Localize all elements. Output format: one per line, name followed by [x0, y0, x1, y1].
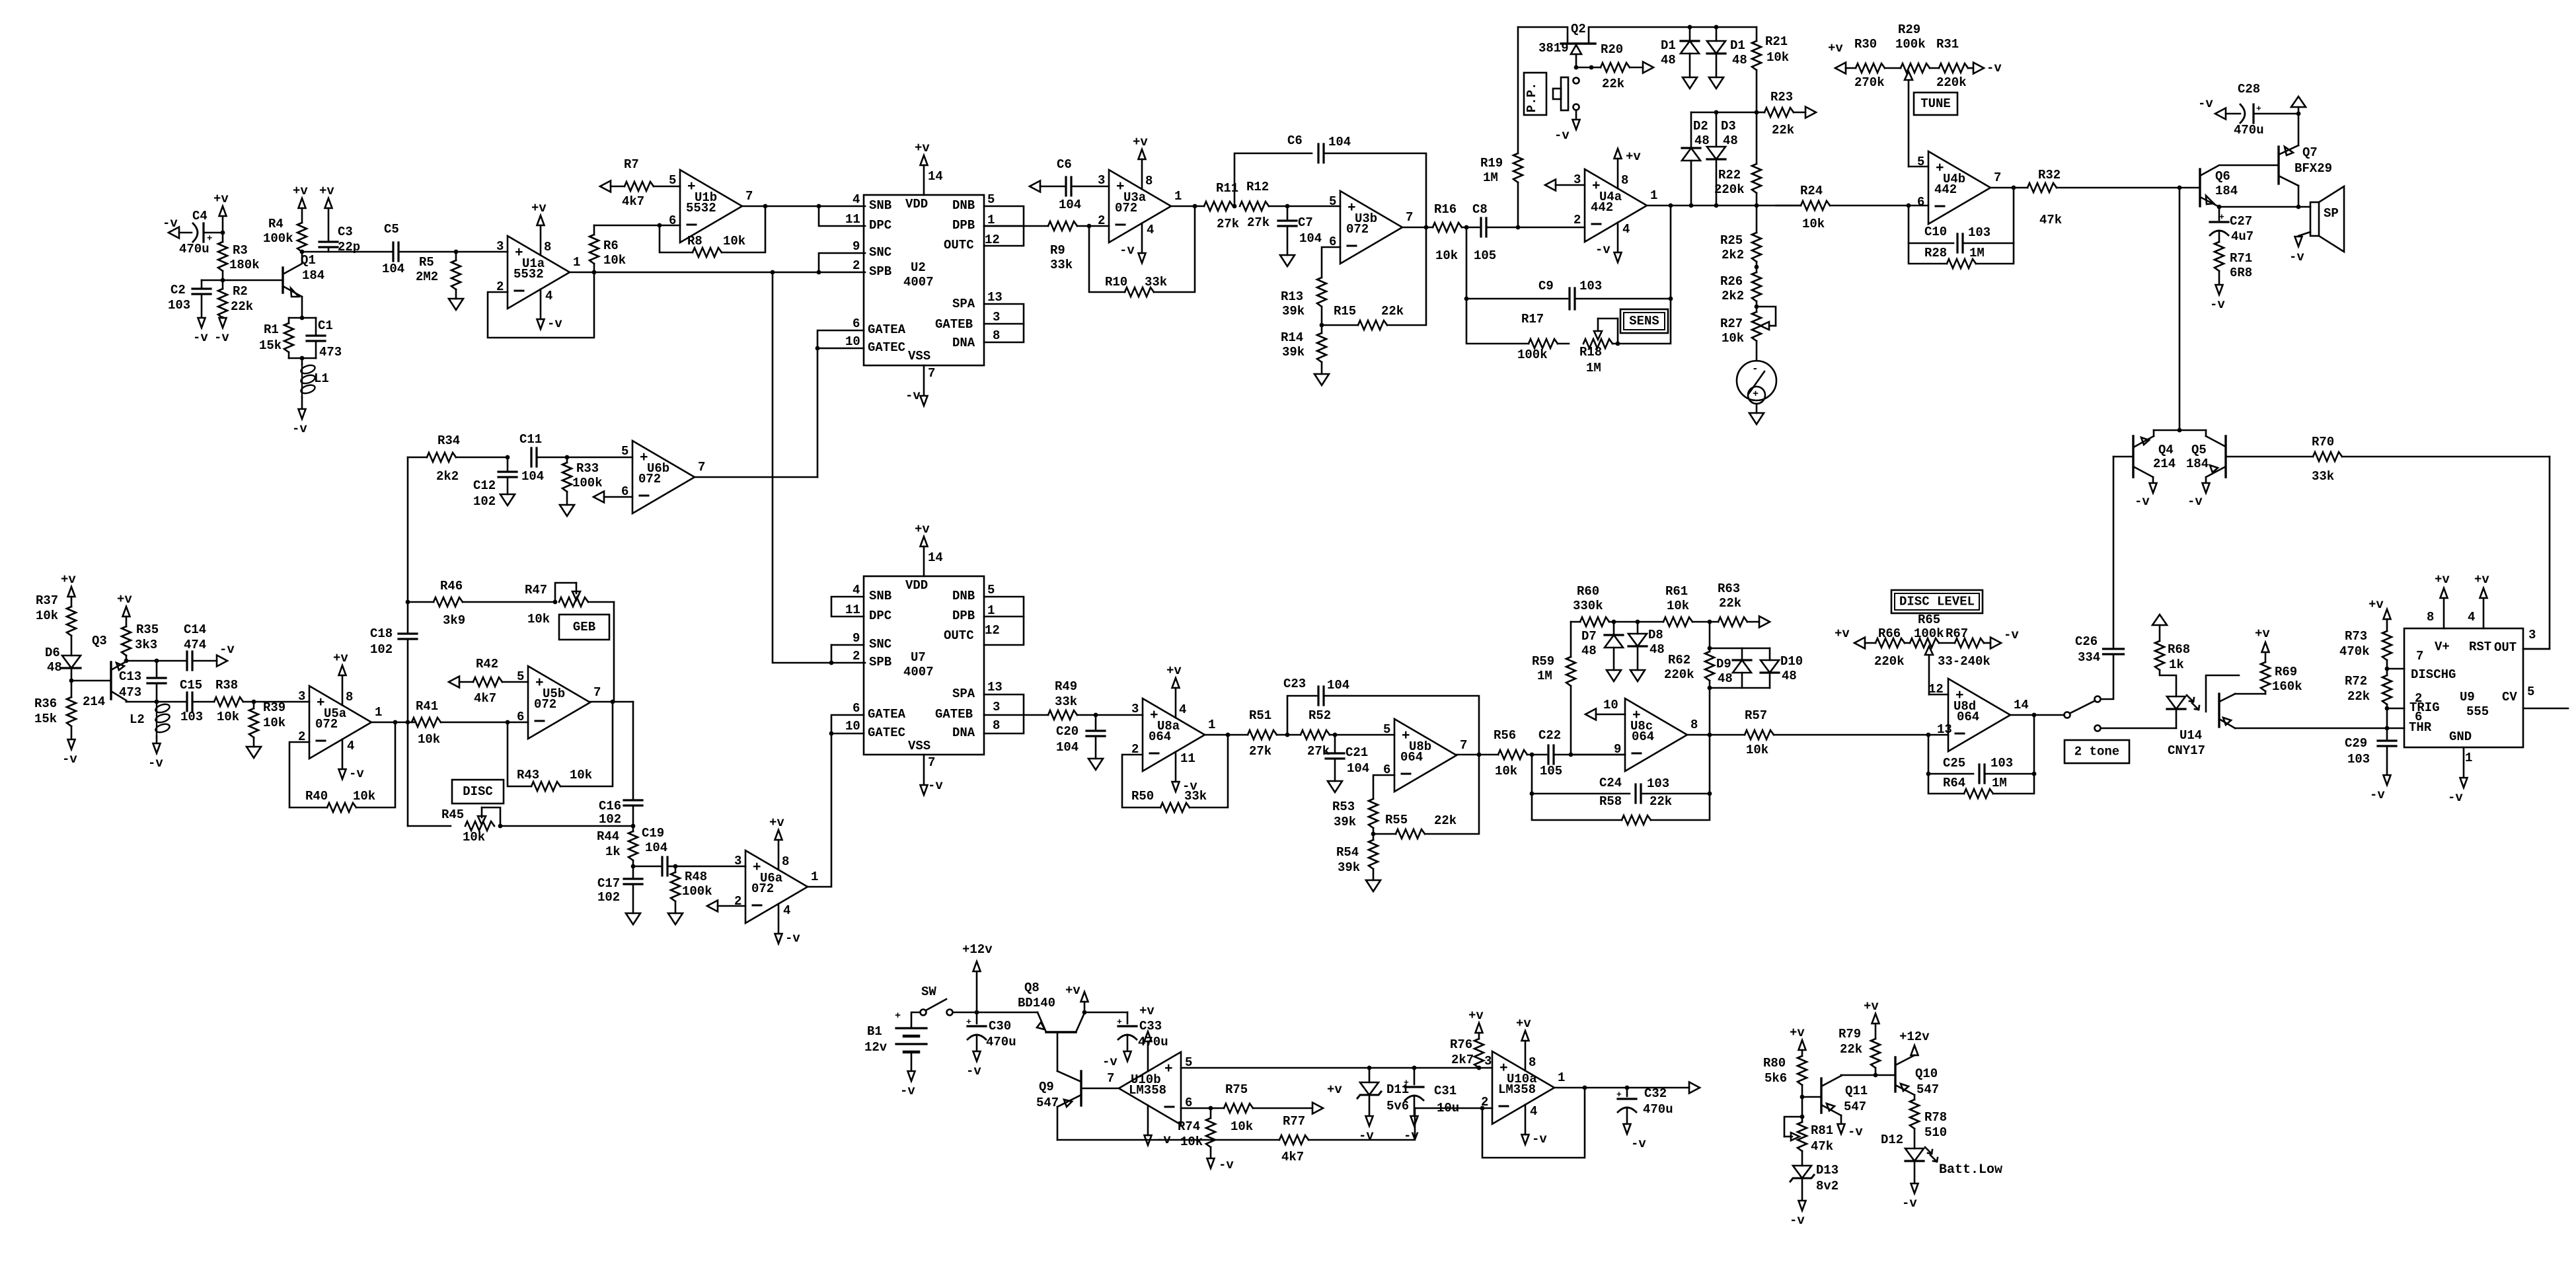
svg-text:184: 184 [2186, 457, 2209, 471]
node U7 GATEC [829, 731, 834, 736]
resistor R20 [1576, 42, 1643, 91]
svg-text:330k: 330k [1573, 599, 1603, 613]
svg-text:2k2: 2k2 [1722, 248, 1744, 262]
U2 pin numbers left [845, 192, 860, 349]
resistor R16 [1433, 202, 1462, 263]
svg-text:22k: 22k [2347, 689, 2370, 704]
resistor R74 [1178, 1108, 1215, 1158]
svg-text:5: 5 [517, 669, 524, 684]
capacitor C6 [1040, 157, 1109, 212]
svg-text:-v: -v [785, 931, 800, 946]
svg-text:+v: +v [61, 572, 76, 587]
node R56/C22/C24 [1527, 753, 1546, 757]
resistor R4 [263, 184, 308, 252]
svg-text:470u: 470u [2234, 123, 2264, 137]
svg-text:D2: D2 [1693, 119, 1708, 133]
resistor R67 [1938, 626, 1990, 669]
U9 DISCHG pin 7 [2388, 649, 2456, 682]
switch pole (2 tone) [2065, 701, 2095, 718]
potentiometer R29 [1885, 22, 1930, 167]
svg-text:7: 7 [1994, 170, 2001, 185]
diode D6 [45, 646, 81, 681]
svg-text:-v: -v [148, 756, 163, 770]
svg-text:C2: C2 [170, 283, 186, 297]
svg-text:C24: C24 [1599, 776, 1622, 790]
transistor Q7 [2279, 114, 2332, 207]
svg-text:104: 104 [1056, 740, 1079, 755]
svg-text:5: 5 [621, 444, 628, 459]
svg-text:4k7: 4k7 [1281, 1150, 1304, 1164]
capacitor C13 [119, 661, 166, 702]
ground (R5) [449, 299, 463, 310]
svg-text:6: 6 [852, 701, 860, 716]
svg-text:U2: U2 [911, 260, 926, 275]
wire R70 to 555 OUT [2523, 457, 2550, 649]
svg-text:DNA: DNA [952, 336, 975, 350]
svg-text:5532: 5532 [513, 267, 544, 281]
svg-text:-v: -v [900, 1084, 915, 1098]
svg-text:Q5: Q5 [2191, 443, 2207, 457]
node Q4/Q5 emitters [2154, 428, 2206, 433]
diode D8 [1628, 622, 1665, 670]
svg-text:214: 214 [2153, 457, 2176, 471]
svg-text:072: 072 [1115, 201, 1137, 215]
svg-text:C20: C20 [1056, 724, 1079, 739]
svg-text:C19: C19 [642, 826, 664, 841]
resistor R71 [2215, 242, 2252, 284]
node U8b out [1477, 753, 1482, 757]
label Batt.Low [1939, 1162, 2002, 1178]
svg-text:D6: D6 [45, 646, 60, 660]
wire U3b pin6 loop [1322, 247, 1340, 278]
svg-text:DISC: DISC [463, 784, 493, 799]
svg-text:-v: -v [1631, 1137, 1646, 1151]
svg-text:14: 14 [2014, 698, 2029, 712]
wire U10b pin5 run [1181, 1067, 1492, 1069]
svg-text:2k2: 2k2 [1722, 289, 1744, 303]
svg-text:8: 8 [1621, 173, 1628, 188]
svg-text:104: 104 [1328, 135, 1351, 149]
svg-text:1M: 1M [1992, 776, 2007, 790]
resistor R41 [412, 699, 528, 747]
node R9/R10 [1087, 224, 1092, 229]
capacitor C17 [597, 866, 642, 913]
svg-text:+v: +v [1864, 999, 1879, 1014]
svg-text:1: 1 [811, 870, 818, 884]
resistor R32 [2027, 168, 2200, 227]
svg-text:3k3: 3k3 [135, 638, 157, 652]
wire U8b pin6 loop [1373, 775, 1394, 799]
svg-text:+: + [2256, 104, 2261, 114]
op-amp U10b (mirrored) [1107, 1004, 1192, 1147]
svg-text:R44: R44 [597, 829, 619, 844]
resistor R58 (feedback) [1532, 735, 1710, 825]
svg-text:+v: +v [2368, 597, 2384, 612]
resistor R60 [1571, 584, 1663, 626]
svg-text:+v: +v [1468, 1008, 1484, 1023]
node R45 right [498, 824, 503, 829]
wire U4b out run [1990, 187, 2027, 189]
svg-text:C25: C25 [1943, 756, 1965, 770]
switch contact lower [2095, 726, 2101, 731]
wire U7 GATEC stub [831, 733, 864, 735]
ground (C7) [1280, 255, 1295, 266]
transistor Q9 [1036, 1071, 1119, 1140]
svg-text:U9: U9 [2460, 690, 2475, 704]
svg-text:C29: C29 [2345, 736, 2367, 751]
svg-text:+v: +v [117, 592, 132, 607]
svg-text:OUTC: OUTC [944, 628, 974, 643]
svg-text:-v: -v [1554, 128, 1570, 143]
power -v (C32) [1624, 1124, 1647, 1151]
svg-text:+v: +v [333, 651, 348, 665]
svg-text:180k: 180k [229, 258, 260, 272]
svg-text:4007: 4007 [903, 275, 934, 289]
resistor R28 [1909, 243, 2014, 268]
svg-text:-v: -v [2289, 250, 2304, 264]
svg-text:Q10: Q10 [1915, 1067, 1938, 1081]
svg-text:C33: C33 [1139, 1019, 1162, 1033]
svg-text:C21: C21 [1345, 745, 1368, 760]
node R21/R22/R23 [1755, 110, 1759, 115]
wire C18 vertical top [407, 457, 409, 634]
svg-text:-v: -v [1532, 1132, 1547, 1146]
power -v (R67) [1990, 628, 2019, 648]
svg-text:48: 48 [47, 660, 62, 675]
svg-text:DPB: DPB [952, 609, 975, 623]
svg-text:BFX29: BFX29 [2294, 161, 2332, 176]
ground (R48) [668, 913, 683, 924]
resistor R5 [416, 252, 461, 299]
svg-text:-v: -v [62, 752, 77, 767]
svg-text:8: 8 [544, 240, 551, 254]
svg-text:7: 7 [745, 189, 753, 204]
wire SPB run [773, 272, 865, 274]
svg-text:+v: +v [1790, 1026, 1805, 1040]
off-page connector -v (C4 input) [163, 216, 192, 238]
svg-text:TRIG: TRIG [2409, 700, 2440, 715]
svg-text:072: 072 [638, 472, 661, 486]
svg-text:+v: +v [2435, 572, 2450, 587]
resistor R36 [34, 681, 76, 739]
svg-text:1k: 1k [605, 844, 621, 859]
svg-text:10k: 10k [1180, 1135, 1203, 1149]
wire base run [202, 280, 283, 281]
svg-text:4: 4 [783, 903, 790, 918]
svg-text:SPB: SPB [869, 264, 891, 279]
svg-text:C22: C22 [1538, 728, 1561, 743]
capacitor C5 [382, 222, 456, 276]
svg-text:-v: -v [547, 317, 562, 331]
svg-text:220k: 220k [1874, 654, 1905, 669]
svg-text:-v: -v [1790, 1213, 1805, 1228]
svg-text:1: 1 [1650, 188, 1657, 203]
potentiometer R27 [1720, 307, 1776, 346]
resistor R14 [1281, 330, 1326, 374]
resistor R50 [1122, 735, 1228, 812]
svg-text:3: 3 [993, 700, 1000, 714]
svg-text:R49: R49 [1055, 679, 1077, 694]
svg-text:VSS: VSS [908, 739, 930, 753]
svg-text:-v: -v [2448, 790, 2463, 805]
svg-text:R65: R65 [1918, 613, 1940, 627]
node U8c out [1708, 733, 1712, 737]
resistor R10 [1089, 206, 1195, 297]
svg-text:1M: 1M [1483, 170, 1498, 185]
node U4b out [2012, 186, 2016, 190]
svg-text:R31: R31 [1936, 37, 1959, 52]
U7 bracket DNB/DPB/OUTC [984, 597, 1024, 645]
wire C18 vertical bottom [407, 722, 409, 826]
svg-text:470k: 470k [2339, 644, 2370, 659]
svg-text:R57: R57 [1745, 708, 1767, 723]
svg-text:6: 6 [852, 317, 860, 331]
svg-text:-v: -v [2004, 628, 2019, 642]
wire GATEA/GATEC feed (from U6b) [815, 330, 864, 477]
svg-text:10k: 10k [1746, 743, 1768, 757]
svg-text:12: 12 [985, 623, 1000, 638]
svg-text:4u7: 4u7 [2231, 229, 2254, 244]
off-page connector (U6a pin2) [707, 901, 745, 912]
svg-text:7: 7 [1107, 1071, 1114, 1086]
svg-text:TUNE: TUNE [1920, 96, 1951, 111]
svg-text:5v6: 5v6 [1386, 1099, 1409, 1113]
svg-text:CV: CV [2502, 690, 2517, 704]
svg-text:220k: 220k [1664, 667, 1694, 682]
svg-text:27k: 27k [1249, 744, 1271, 759]
ground (C20) [1088, 759, 1103, 770]
svg-text:3: 3 [298, 689, 305, 704]
svg-text:+v: +v [1065, 983, 1080, 998]
diode D1 (right) [1707, 27, 1747, 77]
svg-text:R58: R58 [1599, 794, 1622, 809]
svg-text:4: 4 [852, 583, 860, 597]
potentiometer R65 [1905, 613, 1944, 694]
svg-text:+v: +v [1828, 41, 1843, 56]
svg-text:104: 104 [382, 262, 404, 276]
svg-text:547: 547 [1844, 1100, 1866, 1114]
svg-text:R52: R52 [1308, 708, 1331, 723]
svg-text:R19: R19 [1480, 156, 1503, 170]
svg-text:470u: 470u [179, 242, 209, 256]
node D1 right [1690, 25, 1757, 30]
svg-text:+: + [966, 1017, 971, 1027]
svg-text:+v: +v [293, 184, 308, 198]
U2 left pin labels [868, 198, 906, 355]
svg-text:6: 6 [2415, 710, 2422, 724]
svg-text:100k: 100k [572, 476, 603, 490]
svg-text:33k: 33k [1055, 694, 1077, 709]
U9 CV pin 5 [2502, 685, 2568, 708]
svg-text:RST: RST [2469, 640, 2491, 654]
svg-text:470u: 470u [986, 1035, 1016, 1049]
power -v (R2) [214, 317, 229, 345]
wire to U1a pin3 [456, 251, 508, 253]
svg-text:OUT: OUT [2494, 640, 2517, 655]
resistor R70 [2312, 435, 2550, 484]
svg-text:4k7: 4k7 [474, 691, 496, 706]
resistor R30 [1846, 37, 1885, 90]
U2 name [903, 260, 934, 289]
resistor R48 [671, 866, 712, 913]
svg-text:+v: +v [1133, 135, 1148, 149]
svg-text:+v: +v [1835, 626, 1850, 641]
wire U8c out run [1687, 734, 1745, 736]
svg-text:C32: C32 [1644, 1086, 1667, 1101]
svg-text:+v: +v [915, 522, 930, 537]
svg-text:R79: R79 [1838, 1027, 1861, 1041]
svg-text:+v: +v [213, 192, 229, 206]
node R1/C1 bottom [289, 356, 316, 361]
resistor R57 [1745, 708, 1948, 757]
ground (D8) [1630, 670, 1645, 681]
svg-text:104: 104 [1299, 231, 1322, 246]
svg-text:100k: 100k [1517, 348, 1548, 362]
svg-text:R42: R42 [476, 657, 498, 671]
svg-text:102: 102 [473, 494, 496, 509]
node pin13 [1926, 733, 1931, 737]
resistor R63 [1718, 581, 1759, 626]
power -v (D11) [1359, 1116, 1374, 1143]
node R16/C9 tap [1462, 225, 1479, 230]
svg-text:7: 7 [1460, 738, 1467, 753]
resistor R66 [1865, 626, 1905, 669]
U9 GND pin 1 [2449, 730, 2472, 777]
svg-text:3: 3 [1484, 1054, 1492, 1068]
node U8a out [1226, 733, 1231, 737]
capacitor C14 [184, 622, 217, 670]
speaker SP [2296, 186, 2344, 252]
off-page connector (U8c pin10) [1585, 698, 1625, 720]
svg-text:R33: R33 [576, 461, 599, 476]
svg-text:C11: C11 [519, 432, 542, 447]
svg-text:R67: R67 [1946, 626, 1968, 641]
node C13 bottom [126, 700, 186, 704]
svg-text:+v: +v [1516, 1016, 1531, 1031]
svg-text:5k6: 5k6 [1764, 1071, 1787, 1086]
transistor Q6 [2200, 165, 2279, 207]
wire R29 wiper to pin5 [1909, 166, 1928, 168]
svg-text:R81: R81 [1811, 1123, 1833, 1138]
capacitor C27 [2210, 207, 2254, 244]
node R51/C23 [1277, 733, 1301, 737]
op-amp U6b [621, 441, 705, 513]
resistor R78 [1910, 1095, 1947, 1148]
resistor R11 [1204, 181, 1239, 231]
svg-text:104: 104 [1059, 198, 1081, 212]
svg-text:R50: R50 [1131, 789, 1154, 804]
off-page connector (R20 out) [1643, 62, 1653, 73]
svg-text:DNA: DNA [952, 726, 975, 740]
svg-text:22k: 22k [1381, 304, 1404, 318]
svg-text:R23: R23 [1770, 90, 1793, 104]
svg-text:D13: D13 [1816, 1163, 1838, 1178]
battery B1 [864, 1010, 927, 1070]
svg-text:+12v: +12v [962, 942, 993, 957]
resistor R19 [1480, 27, 1523, 227]
node Q2 source/R20 [1574, 65, 1594, 70]
svg-text:SNB: SNB [869, 589, 891, 603]
svg-text:6: 6 [669, 213, 676, 228]
power -v (Q11) [1838, 1124, 1864, 1139]
capacitor C4 [179, 209, 223, 256]
resistor R77 [1057, 1108, 1415, 1164]
U9 name [2460, 690, 2489, 719]
capacitor C11 [519, 432, 567, 484]
svg-text:R20: R20 [1601, 42, 1623, 57]
svg-text:6: 6 [1917, 195, 1924, 209]
node Q1 collector [300, 250, 305, 254]
svg-text:4: 4 [1179, 702, 1186, 717]
off-page connector (C6 in) [1030, 181, 1040, 192]
node R73/R72 [2385, 667, 2390, 671]
svg-text:3819: 3819 [1538, 41, 1569, 56]
power +v (R3 top) [213, 192, 229, 233]
resistor R3 [218, 233, 260, 280]
svg-text:10: 10 [845, 719, 860, 733]
U7 SNC/SPB feed [829, 645, 864, 665]
svg-text:D8: D8 [1648, 628, 1663, 642]
svg-text:39k: 39k [1282, 304, 1305, 318]
svg-text:102: 102 [599, 812, 621, 827]
svg-text:5532: 5532 [686, 201, 716, 215]
svg-text:1k: 1k [2169, 657, 2184, 672]
resistor R68 [2155, 641, 2190, 696]
svg-text:104: 104 [521, 469, 544, 484]
svg-text:10k: 10k [217, 710, 239, 724]
svg-text:R15: R15 [1334, 304, 1356, 318]
capacitor C32 [1616, 1086, 1673, 1123]
op-amp U8c [1614, 698, 1698, 771]
svg-text:100k: 100k [1914, 626, 1944, 641]
node R53/R54/R55 [1371, 828, 1376, 840]
resistor R53 [1332, 799, 1378, 829]
svg-text:R4: R4 [268, 217, 284, 231]
op-amp U3a [1098, 135, 1182, 263]
svg-text:R29: R29 [1898, 22, 1920, 37]
op-amp U4a [1573, 149, 1657, 262]
svg-text:064: 064 [1400, 750, 1423, 765]
svg-text:C6: C6 [1057, 157, 1072, 172]
svg-text:R35: R35 [136, 622, 159, 637]
U7 pin VSS 7 -v [908, 739, 943, 795]
svg-text:100k: 100k [682, 884, 712, 899]
resistor R64 (feedback) [1928, 774, 2034, 798]
node R12/C7 [1285, 204, 1290, 209]
svg-text:SPB: SPB [869, 655, 891, 669]
wire U5a out run [371, 722, 416, 724]
svg-text:1M: 1M [1537, 669, 1552, 683]
svg-text:104: 104 [1327, 678, 1349, 693]
inductor L2 [130, 702, 170, 743]
capacitor C22 [1538, 728, 1625, 778]
wire R65 wiper to pin12 [1928, 682, 1948, 696]
svg-text:+v: +v [1626, 149, 1641, 164]
node Q6 base/Q4Q5 [2178, 186, 2182, 190]
svg-text:-v: -v [1404, 1129, 1419, 1143]
node U4b pin6 [1907, 204, 1911, 208]
svg-text:4: 4 [1622, 222, 1630, 237]
svg-text:100k: 100k [1895, 37, 1926, 52]
svg-text:VSS: VSS [908, 349, 930, 363]
svg-text:104: 104 [645, 841, 667, 855]
svg-text:1: 1 [1174, 189, 1182, 204]
power -v (L1) [292, 409, 307, 436]
svg-text:Q11: Q11 [1845, 1084, 1868, 1098]
svg-text:R30: R30 [1854, 37, 1877, 52]
resistor R34 [408, 433, 508, 484]
svg-text:+v: +v [531, 201, 547, 215]
